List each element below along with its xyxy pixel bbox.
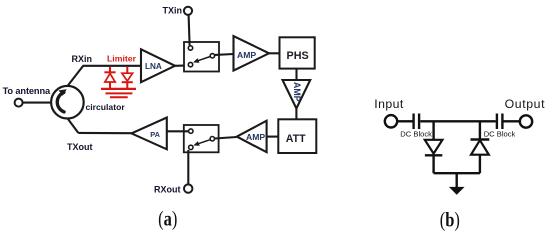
svg-text:Limiter: Limiter (107, 54, 137, 64)
svg-text:Output: Output (505, 97, 546, 111)
svg-text:AMP: AMP (292, 82, 302, 102)
svg-text:DC Block: DC Block (400, 130, 432, 139)
svg-text:AMP: AMP (246, 132, 265, 142)
svg-text:ATT: ATT (286, 133, 306, 145)
svg-text:LNA: LNA (145, 62, 162, 71)
svg-text:RXin: RXin (72, 54, 93, 64)
svg-text:To antenna: To antenna (3, 86, 51, 96)
svg-text:PA: PA (150, 130, 160, 139)
svg-text:DC Block: DC Block (484, 130, 516, 139)
svg-text:(a): (a) (158, 208, 177, 231)
svg-text:Input: Input (374, 97, 404, 111)
svg-text:AMP: AMP (237, 50, 256, 60)
svg-text:TXout: TXout (67, 142, 93, 152)
svg-text:TXin: TXin (163, 6, 183, 16)
svg-text:RXout: RXout (154, 184, 181, 194)
svg-text:PHS: PHS (287, 50, 309, 62)
svg-text:(b): (b) (440, 209, 460, 232)
svg-text:circulator: circulator (86, 102, 126, 112)
